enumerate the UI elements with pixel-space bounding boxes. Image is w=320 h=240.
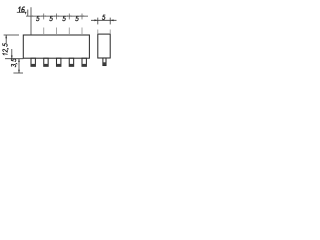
- extension line pin2 upper: [43, 14, 45, 20]
- 3.5 arrow top: [18, 59, 20, 62]
- dim text 5 (side): [102, 15, 105, 20]
- pin 2 tip fill: [44, 64, 48, 66]
- dim text 5 (1): [36, 16, 39, 21]
- pin 5 tip fill: [82, 64, 86, 66]
- side extension right lower faint: [109, 30, 111, 35]
- side view pin: [103, 58, 106, 66]
- 16 dim underline: [17, 11, 25, 13]
- pitch arrows at tick2: [42, 15, 44, 16]
- dim text 5 (2): [50, 16, 53, 21]
- pin 4 tip fill: [69, 64, 73, 66]
- 12.5 top extension: [4, 34, 19, 36]
- 12.5 arrow bottom: [11, 56, 13, 59]
- 12.5 arrow top: [5, 35, 7, 38]
- 12.5 dim line upper segment: [5, 35, 7, 43]
- 16 leader arrow (down): [25, 12, 27, 15]
- relay body front view: [23, 35, 89, 58]
- dim text 16: [18, 7, 25, 12]
- pin 1 front: [31, 58, 35, 66]
- dim text 5 (3): [63, 16, 66, 21]
- pin 3 tip fill: [57, 64, 61, 66]
- dim text 12,5 (rotated): [3, 43, 9, 55]
- side view body: [98, 34, 110, 58]
- side extension left lower faint: [97, 30, 99, 35]
- side extension left upper: [97, 18, 99, 25]
- extension line pin2 lower faint: [43, 28, 45, 36]
- dim text 3,5 (rotated): [11, 59, 17, 68]
- extension line pin4 lower faint: [68, 28, 70, 36]
- pin 5 front: [82, 58, 86, 66]
- pitch dimension line: [26, 15, 88, 17]
- pitch arrows at tick3: [54, 15, 56, 16]
- pitch arrow right of tick1: [31, 15, 33, 16]
- dim text 5 (4): [75, 16, 78, 21]
- side extension right upper: [109, 18, 111, 25]
- pin 4 front: [69, 58, 73, 66]
- pitch arrows at tick5: [80, 15, 82, 16]
- 3.5 arrow bottom: [18, 70, 20, 73]
- side dim arrow left: [94, 19, 97, 21]
- pin 2 front: [44, 58, 48, 66]
- 16 extension tick: [27, 10, 29, 17]
- extension line pin3 lower faint: [56, 28, 58, 36]
- extension line pin4 upper: [68, 14, 70, 20]
- side 5 dim line: [91, 19, 117, 21]
- 3.5 dim line: [18, 59, 20, 73]
- extension line pin1: [30, 7, 32, 35]
- 3.5 bottom extension: [13, 72, 23, 74]
- pin 3 front: [57, 58, 61, 66]
- 12.5 dim line lower segment: [11, 49, 13, 59]
- extension line pin5 upper: [81, 14, 83, 20]
- pin 1 tip fill: [31, 64, 35, 66]
- extension line pin5 lower faint: [81, 28, 83, 36]
- pitch arrows at tick4: [67, 15, 69, 16]
- body bottom extension left: [5, 58, 23, 60]
- extension line pin3 upper: [56, 14, 58, 20]
- side pin tip fill: [103, 62, 106, 65]
- side dim arrow right: [110, 19, 113, 21]
